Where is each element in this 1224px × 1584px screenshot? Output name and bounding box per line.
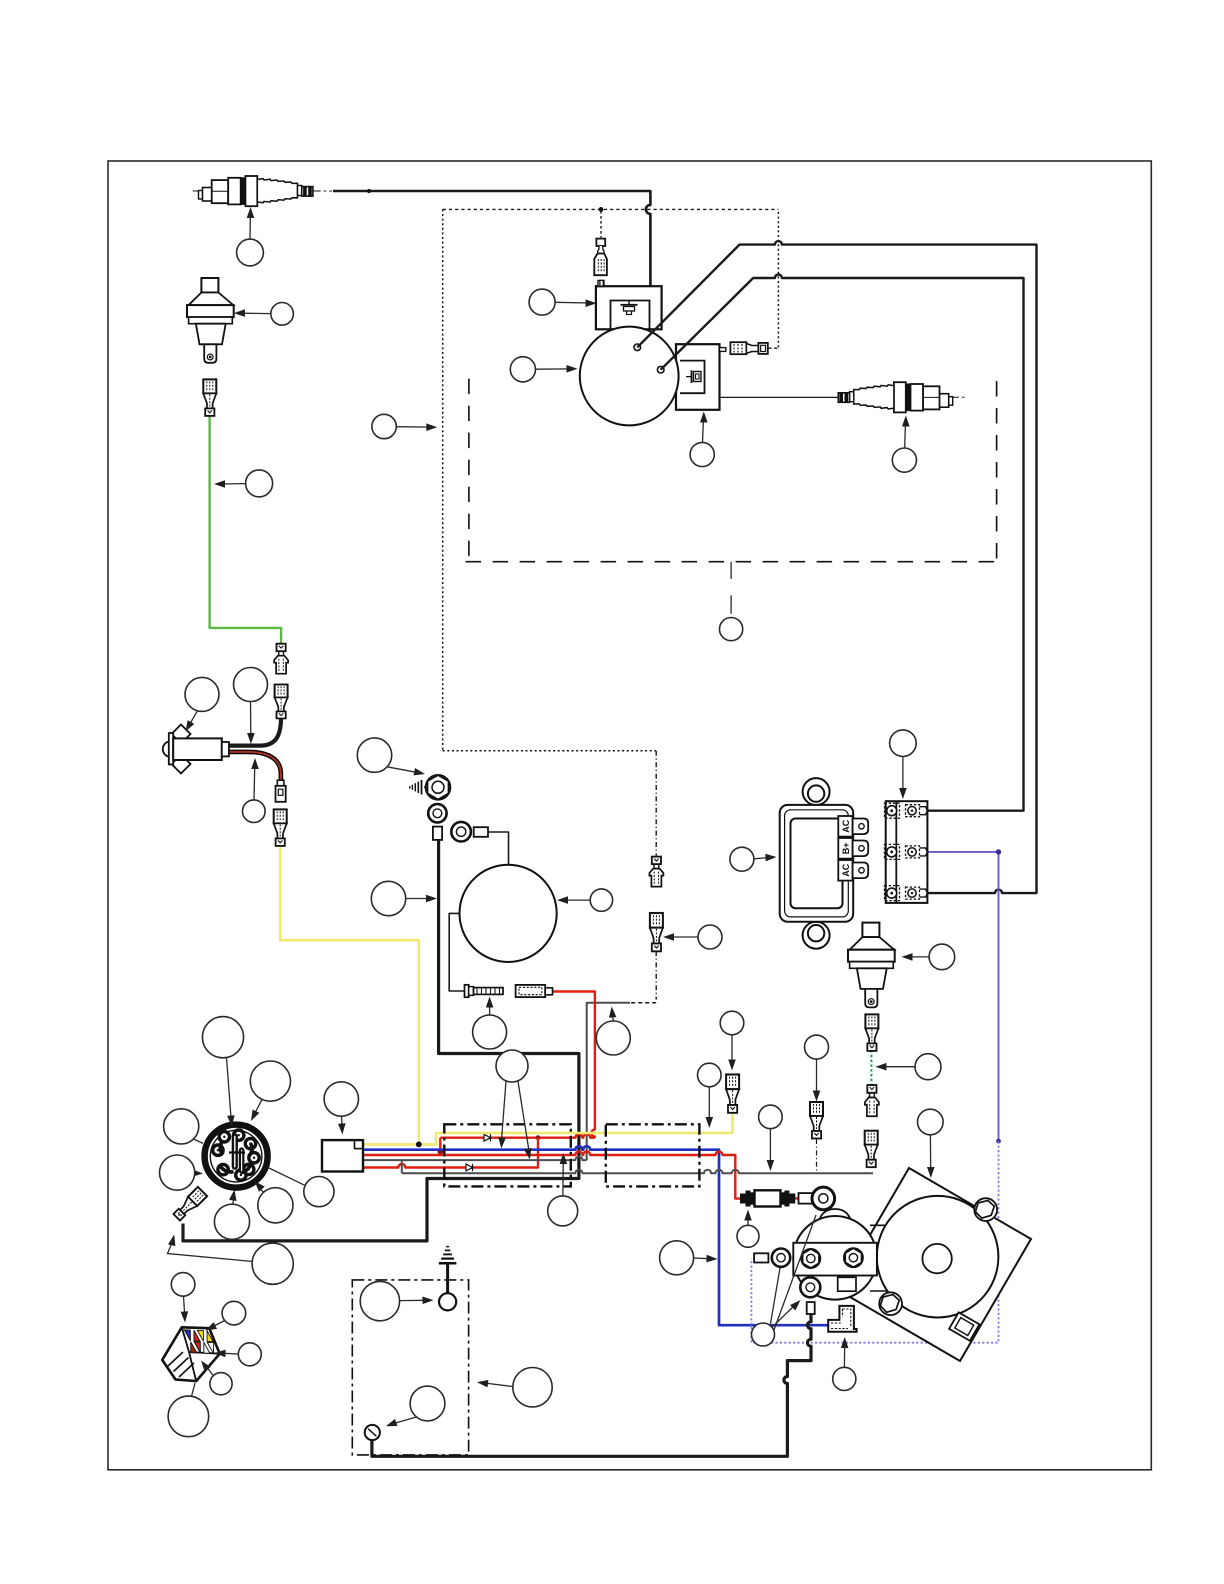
- diagonal spade connector at key switch: [172, 1187, 207, 1222]
- wire stator diagonal outer to terminal block: [637, 241, 1036, 893]
- female bullet connector on dash-dot lead: [810, 1102, 823, 1139]
- callout dark red buzzer wire: [243, 758, 266, 823]
- callout engine harness connector: [324, 1082, 358, 1135]
- callout key switch lower right: [255, 1181, 294, 1223]
- temperature switch 2: [848, 923, 895, 1008]
- callout green dashed connector: [876, 1054, 942, 1080]
- callout battery: [477, 1368, 552, 1407]
- terminal screw: [465, 985, 504, 997]
- engine harness connector: [322, 1140, 363, 1171]
- callout buzzer bracket: [185, 677, 219, 731]
- ignition coil 1: [596, 281, 662, 330]
- yellow harness wire: [363, 1113, 733, 1145]
- ignition key switch: [205, 1125, 268, 1188]
- red harness wire to starter fuse: [363, 1152, 741, 1199]
- callout regulator: [730, 847, 777, 871]
- callout remote connector lower: [201, 1361, 232, 1395]
- red wire fuse to solenoid ring terminal: [795, 1197, 799, 1199]
- callout key switch right: [268, 1168, 334, 1207]
- regulator terminal B+ pin 2: [838, 838, 868, 859]
- ignition coil 2: [676, 344, 726, 410]
- callout starter fuse: [737, 1210, 759, 1248]
- battery negative terminal: [365, 1425, 380, 1440]
- callout blue wire at starter: [660, 1241, 718, 1275]
- male connector on green wire: [274, 644, 288, 674]
- callout terminal block: [890, 730, 917, 799]
- ignition plate dotted outline: [443, 209, 779, 750]
- gray kill wire to harness: [587, 1003, 630, 1160]
- callout remote connector right: [215, 1343, 262, 1366]
- bullet connector pair coil 2: [730, 342, 767, 354]
- spark plug 2: [838, 382, 952, 412]
- dark red wire buzzer to connector: [229, 752, 281, 781]
- callout key switch left: [164, 1109, 203, 1144]
- fuse holder on stator circuit: [516, 985, 553, 997]
- callout kill circuit connector: [663, 925, 722, 949]
- callout remote connector bottom: [168, 1383, 209, 1437]
- dashed lead coil 2 bullet to dotted box: [768, 347, 778, 349]
- callout battery charge coil: [557, 889, 613, 911]
- terminal block screw row 1: [885, 803, 928, 818]
- kill circuit male connector: [649, 857, 663, 887]
- callout harness junction: [496, 1050, 530, 1154]
- starter bolt upper: [974, 1198, 997, 1221]
- regulator terminal AC pin 1: [838, 816, 868, 837]
- flywheel: [580, 327, 679, 426]
- starter solenoid cap: [818, 1209, 852, 1226]
- callout yellow connector: [720, 1011, 744, 1070]
- callout remote connector right top: [206, 1301, 246, 1330]
- dotted lead to coil 1 connector: [600, 211, 602, 238]
- arrowhead harness junction leader 2: [524, 1148, 531, 1160]
- callout main harness dotted box: [372, 414, 437, 438]
- spark plug 1: [199, 176, 313, 206]
- svg-text:AC: AC: [841, 863, 851, 876]
- red wire stator fuse down to harness: [553, 992, 595, 1138]
- yellow circuit female connector: [726, 1075, 739, 1113]
- svg-text:AC: AC: [841, 819, 851, 832]
- starter motor bracket: [838, 1168, 1031, 1361]
- starter terminal foot: [949, 1312, 979, 1340]
- callout black buzzer wire: [234, 668, 268, 745]
- junction dot purple lower: [996, 1139, 1001, 1144]
- green dashed lead temperature switch 2: [870, 1050, 872, 1085]
- callout solenoid terminals: [752, 1215, 817, 1346]
- overheat warning buzzer: [163, 725, 229, 774]
- regulator terminal AC pin 3: [838, 860, 868, 881]
- female connector on temperature switch 2: [865, 1014, 878, 1051]
- page border frame: [108, 161, 1151, 1470]
- callout battery negative: [386, 1386, 445, 1426]
- solenoid ground ring terminal: [800, 1277, 820, 1314]
- terminal block screw row 2: [885, 844, 928, 859]
- gray branch riser: [401, 1160, 403, 1173]
- battery charge coil: [460, 865, 557, 962]
- gray harness wire to starter circuit: [402, 1170, 873, 1173]
- terminal block: [886, 801, 928, 903]
- dash-dot kill lead below coil 2: [655, 751, 657, 857]
- starter motor body: [877, 1196, 999, 1318]
- callout stator fuse lead: [596, 1007, 630, 1056]
- wire stator to rectifier screw: [449, 913, 464, 991]
- purple dashed wire at starter: [751, 1141, 998, 1343]
- wire stator to ring terminal: [488, 832, 509, 865]
- female connector on black buzzer wire: [275, 685, 288, 719]
- red wire harness top branch: [440, 1134, 595, 1155]
- black wire buzzer to connector: [229, 716, 281, 746]
- callout engine block: [720, 618, 743, 641]
- callout temperature switch 2: [902, 944, 955, 970]
- male bullet connector above coil 1: [594, 239, 607, 287]
- solenoid terminal nut right: [844, 1248, 863, 1267]
- callout gray wire: [759, 1105, 783, 1171]
- dashed kill segment to gray wire: [629, 1002, 656, 1004]
- flywheel terminal 1: [634, 344, 641, 351]
- junction dot red riser: [536, 1135, 541, 1140]
- callout remote connector top: [171, 1273, 195, 1323]
- dash-dot lead bullet connector to gray wire: [816, 1139, 818, 1173]
- diode on red accessory wire: [466, 1164, 473, 1171]
- callout spark plug 1: [237, 207, 264, 266]
- junction dot on kill bus: [599, 207, 604, 212]
- starter solenoid body: [793, 1216, 877, 1300]
- junction dot purple top: [996, 849, 1001, 854]
- kill circuit female connector: [650, 913, 663, 951]
- dotted kill bus line: [443, 208, 779, 210]
- solenoid S-terminal ring lug: [754, 1249, 790, 1267]
- starter motor shaft: [922, 1244, 951, 1273]
- wire coil 2 to spark plug 2: [720, 396, 840, 398]
- callout key switch upper right: [250, 1061, 290, 1121]
- callout key switch top: [202, 1017, 243, 1127]
- callout ignition coil 2: [690, 412, 714, 467]
- right angle spade connector at solenoid: [828, 1306, 856, 1332]
- arrowhead harness junction leader 1: [498, 1137, 506, 1148]
- diode on red top branch: [484, 1134, 491, 1141]
- in-line fuse: [741, 1190, 795, 1206]
- yellow warning horn wire: [280, 845, 419, 1144]
- callout terminal screw: [473, 997, 507, 1050]
- callout flywheel: [510, 357, 577, 382]
- solenoid terminal nut left: [801, 1249, 820, 1268]
- remote control harness connector: [162, 1327, 220, 1381]
- battery ground symbol: [439, 1247, 457, 1294]
- ring terminal on solenoid battery post: [799, 1187, 835, 1210]
- callout temperature switch 1: [234, 303, 294, 326]
- spark plug 1 lead centerline: [193, 190, 332, 192]
- callout ignition coil 1: [529, 289, 596, 315]
- battery positive terminal: [439, 1293, 456, 1310]
- terminal block screw row 3: [885, 886, 928, 901]
- callout key switch bottom: [214, 1190, 249, 1240]
- callout bullet connector: [805, 1035, 829, 1101]
- ring terminal on ground wire: [428, 804, 446, 840]
- callout key switch bottom right: [168, 1235, 294, 1285]
- svg-text:B+: B+: [841, 842, 851, 854]
- callout battery positive: [360, 1281, 433, 1320]
- black battery cable: [372, 1314, 811, 1456]
- starter bolt lower: [879, 1292, 902, 1315]
- callout ground harness wire: [371, 881, 437, 915]
- female connector above gray wire: [865, 1131, 878, 1168]
- callout spade at solenoid: [833, 1337, 856, 1391]
- red accessory wire with diode: [363, 1138, 538, 1168]
- callout harness box 2: [698, 1063, 722, 1128]
- gray harness wire to kill switch circuit: [363, 1157, 587, 1160]
- connector below temperature switch 1: [203, 379, 216, 416]
- ring terminal on stator wire: [451, 822, 488, 842]
- black ground harness wire: [183, 840, 579, 1241]
- wire stator diagonal inner to terminal block: [661, 275, 1024, 811]
- purple wire terminal block to starter: [927, 852, 998, 1141]
- female connector on yellow wire: [274, 809, 287, 846]
- voltage regulator: [780, 778, 854, 949]
- spark plug 1 high tension wire: [333, 191, 650, 286]
- starter solenoid link: [870, 1225, 905, 1291]
- ground bolt: [410, 775, 451, 800]
- dash leader engine outline to callout 4: [730, 562, 732, 614]
- callout blue wire: [548, 1153, 578, 1226]
- spark plug 2 centerline: [950, 396, 966, 398]
- callout spark plug 2: [892, 416, 916, 473]
- junction dot yellow: [416, 1142, 422, 1148]
- wiring harness box 2: [606, 1124, 700, 1186]
- junction dot red branch: [438, 1149, 444, 1155]
- flywheel terminal 2: [657, 366, 664, 373]
- battery dash-dot box: [352, 1280, 468, 1455]
- callout starter motor: [918, 1109, 944, 1178]
- callout green wire: [214, 470, 273, 497]
- wiring harness box 1: [444, 1124, 571, 1186]
- callout key switch lower left: [160, 1155, 204, 1190]
- bullet connector on dark red wire: [276, 780, 286, 802]
- callout ground bolt: [357, 738, 425, 776]
- male connector on green dashed lead: [865, 1085, 879, 1116]
- engine block dashed outline: [466, 379, 997, 562]
- temperature switch 1: [187, 278, 234, 363]
- blue harness wire to starter solenoid: [363, 1146, 828, 1325]
- starter solenoid band: [793, 1243, 877, 1276]
- solenoid lower cover: [838, 1277, 856, 1291]
- green wire temperature switch to warning buzzer: [210, 417, 282, 644]
- junction dot on plug wire: [367, 189, 371, 193]
